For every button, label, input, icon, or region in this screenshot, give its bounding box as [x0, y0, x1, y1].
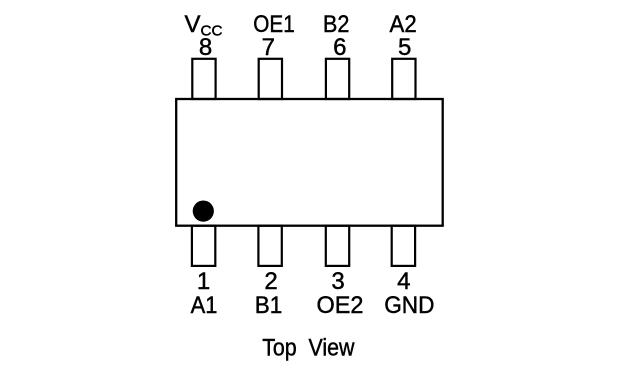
- pin 1 indicator dot: [193, 201, 214, 222]
- svg-text:7: 7: [262, 34, 275, 61]
- svg-text:B1: B1: [255, 292, 282, 319]
- svg-text:6: 6: [333, 34, 346, 61]
- pin 5 lead: [392, 59, 415, 99]
- svg-text:A1: A1: [191, 292, 218, 319]
- svg-text:Top View: Top View: [262, 335, 355, 362]
- svg-text:8: 8: [199, 34, 212, 61]
- svg-text:1: 1: [197, 268, 210, 295]
- pin 2 lead: [258, 226, 281, 266]
- pin 3 lead: [326, 226, 349, 266]
- IC body U1: [176, 99, 443, 226]
- svg-text:5: 5: [398, 34, 411, 61]
- svg-text:OE2: OE2: [317, 292, 364, 319]
- svg-text:GND: GND: [384, 292, 434, 319]
- pin 6 lead: [326, 59, 349, 99]
- svg-text:3: 3: [331, 268, 344, 295]
- pin 4 lead: [392, 226, 415, 266]
- pin 7 lead: [259, 59, 282, 99]
- pin 8 lead: [192, 59, 215, 99]
- svg-text:4: 4: [397, 268, 410, 295]
- pin 1 lead: [192, 226, 215, 266]
- svg-text:2: 2: [264, 268, 277, 295]
